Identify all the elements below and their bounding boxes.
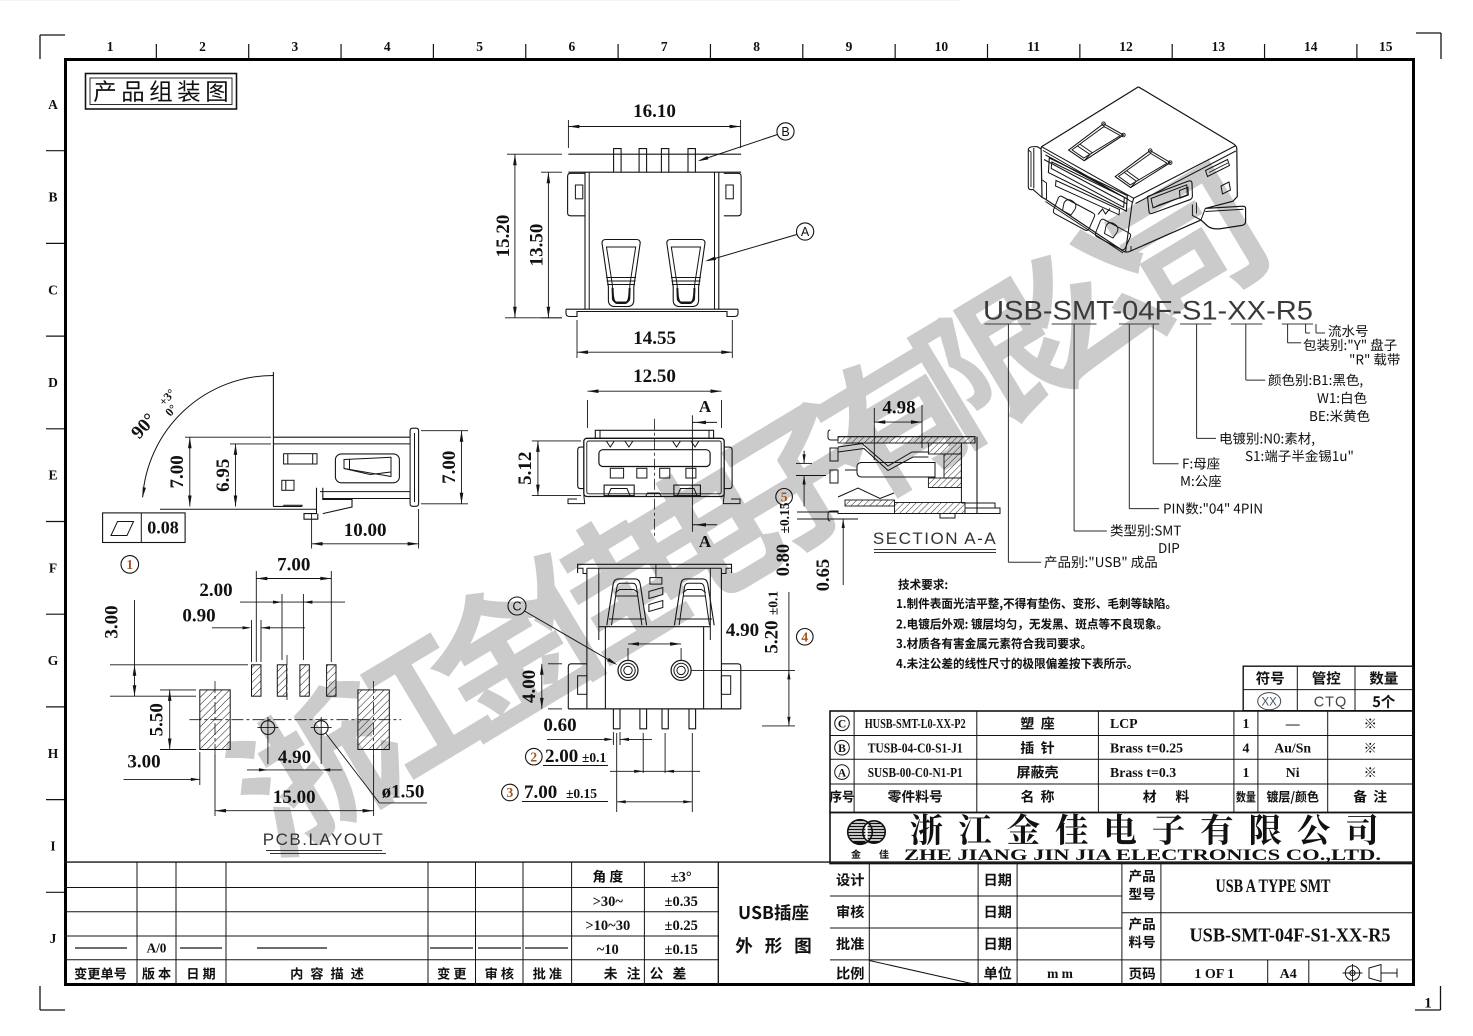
svg-text:4.90: 4.90 bbox=[726, 620, 759, 641]
svg-text:1 OF 1: 1 OF 1 bbox=[1194, 967, 1234, 982]
tree leader 类型别 bbox=[1073, 324, 1075, 531]
svg-text:±0.15: ±0.15 bbox=[566, 786, 597, 801]
svg-text:PCB.LAYOUT: PCB.LAYOUT bbox=[263, 830, 384, 849]
svg-text:±0.15: ±0.15 bbox=[665, 942, 698, 958]
svg-text:Brass t=0.3: Brass t=0.3 bbox=[1110, 765, 1176, 780]
svg-text:6: 6 bbox=[569, 39, 576, 54]
BOM row B bbox=[835, 740, 850, 755]
technical requirements text bbox=[898, 579, 909, 590]
svg-text:USB-SMT-04F-S1-XX-R5: USB-SMT-04F-S1-XX-R5 bbox=[983, 296, 1313, 326]
back view dim 5.20±0.1 circled 4 bbox=[691, 669, 795, 671]
svg-text:G: G bbox=[48, 653, 59, 668]
pcb dim 5.50 bbox=[160, 689, 196, 691]
svg-text:0.65: 0.65 bbox=[814, 559, 834, 591]
pcb dim 3.00 bottom bbox=[199, 752, 201, 785]
drawing name cell bbox=[717, 862, 719, 985]
front view base plate bbox=[566, 149, 741, 317]
svg-text:C: C bbox=[512, 600, 521, 614]
svg-text:A: A bbox=[838, 767, 847, 779]
svg-text:D: D bbox=[48, 375, 58, 390]
svg-text:2: 2 bbox=[530, 749, 537, 764]
svg-text:C: C bbox=[48, 282, 58, 297]
svg-text:1: 1 bbox=[1242, 765, 1249, 780]
back view SMT legs bbox=[568, 564, 741, 729]
svg-text:14.55: 14.55 bbox=[633, 328, 676, 349]
svg-text:±0.35: ±0.35 bbox=[665, 894, 698, 910]
projection symbol bbox=[1345, 966, 1359, 980]
tree leader 包装别 bbox=[1287, 324, 1289, 343]
svg-text:CTQ: CTQ bbox=[1314, 695, 1348, 711]
svg-text:±0.1: ±0.1 bbox=[766, 591, 781, 616]
svg-text:13: 13 bbox=[1212, 39, 1226, 54]
svg-text:7.00: 7.00 bbox=[277, 555, 310, 576]
mating view dim 12.50 bbox=[587, 400, 589, 428]
svg-text:B: B bbox=[48, 190, 57, 205]
flatness tolerance box 0.08 bbox=[103, 513, 186, 543]
back view dim 4.00 bbox=[548, 663, 562, 665]
svg-text:A: A bbox=[699, 532, 712, 551]
svg-text:3.00: 3.00 bbox=[127, 752, 160, 773]
leader circle B bbox=[777, 123, 794, 140]
svg-text:USB A TYPE SMT: USB A TYPE SMT bbox=[1216, 877, 1332, 897]
svg-text:14: 14 bbox=[1304, 39, 1318, 54]
svg-text:±0.15: ±0.15 bbox=[777, 502, 792, 533]
svg-text:ZHE JIANG JIN JIA ELECTRONICS: ZHE JIANG JIN JIA ELECTRONICS CO.,LTD. bbox=[904, 845, 1381, 864]
part number segment underlines bbox=[985, 323, 1031, 325]
side view bottom and SMT foot bbox=[160, 372, 419, 519]
mating view dim 5.12 bbox=[532, 440, 581, 442]
BOM header row bbox=[830, 790, 842, 803]
svg-text:A: A bbox=[801, 225, 810, 239]
svg-text:15.20: 15.20 bbox=[493, 215, 514, 258]
scale cell diagonal bbox=[869, 961, 978, 986]
side view dim 7.00 left bbox=[189, 437, 191, 506]
svg-text:>10~30: >10~30 bbox=[585, 918, 630, 934]
svg-text:A4: A4 bbox=[1280, 967, 1297, 982]
corner trim marks bbox=[40, 34, 65, 36]
svg-text:4.90: 4.90 bbox=[278, 747, 311, 768]
back view dim 4.90 bbox=[628, 643, 681, 645]
svg-text:SECTION A-A: SECTION A-A bbox=[873, 529, 997, 548]
svg-text:m m: m m bbox=[1047, 966, 1074, 981]
svg-text:B: B bbox=[781, 125, 789, 139]
dim 0.65 bbox=[797, 511, 838, 513]
svg-text:7: 7 bbox=[661, 39, 668, 54]
svg-text:5.12: 5.12 bbox=[515, 452, 536, 485]
section A-A dim 4.98 bbox=[873, 408, 875, 460]
company name 浙江金佳电子有限公司 bbox=[911, 813, 1377, 845]
pcb layout holes bbox=[189, 655, 401, 758]
pcb dim 0.90 bbox=[251, 620, 253, 662]
svg-text:A/0: A/0 bbox=[147, 941, 167, 956]
svg-text:I: I bbox=[50, 838, 55, 853]
svg-text:1: 1 bbox=[107, 39, 114, 54]
svg-text:7.00: 7.00 bbox=[439, 451, 460, 484]
tree leader 流水号 bbox=[1305, 324, 1307, 333]
title block grid bbox=[830, 862, 1413, 864]
pcb dim diameter 1.50 bbox=[326, 734, 379, 803]
svg-text:15: 15 bbox=[1379, 39, 1393, 54]
svg-text:HUSB-SMT-L0-XX-P2: HUSB-SMT-L0-XX-P2 bbox=[865, 716, 966, 731]
side view dim 6.95 bbox=[235, 444, 237, 507]
svg-text:3: 3 bbox=[292, 39, 299, 54]
svg-text:±3°: ±3° bbox=[671, 870, 692, 886]
svg-text:Brass t=0.25: Brass t=0.25 bbox=[1110, 740, 1183, 755]
svg-text:5.20: 5.20 bbox=[762, 620, 783, 653]
svg-text:2.00: 2.00 bbox=[199, 580, 232, 601]
svg-text:4.98: 4.98 bbox=[882, 398, 915, 419]
svg-text:2: 2 bbox=[199, 39, 206, 54]
BOM row C bbox=[835, 716, 850, 731]
company logo bbox=[846, 818, 888, 846]
tree leader 颜色别 bbox=[1245, 324, 1247, 380]
front view dim 14.55 bbox=[576, 320, 578, 358]
svg-text:3.00: 3.00 bbox=[102, 605, 123, 638]
svg-text:A: A bbox=[699, 397, 712, 416]
svg-text:11: 11 bbox=[1027, 39, 1040, 54]
svg-text:1: 1 bbox=[1242, 716, 1249, 731]
pcb dim 2.00 bbox=[281, 594, 283, 660]
pcb dim 7.00 bbox=[255, 571, 257, 662]
pcb dim 4.90 bbox=[267, 737, 269, 764]
dim 0.80±0.15 circled 5 bbox=[803, 451, 805, 464]
left row ticks and letters bbox=[46, 150, 64, 152]
section line A-A bbox=[691, 415, 693, 532]
svg-text:>30~: >30~ bbox=[593, 894, 624, 910]
pcb dim 15.00 bbox=[214, 755, 216, 816]
assembly-drawing title box bbox=[86, 74, 237, 110]
svg-text:XX: XX bbox=[1262, 696, 1278, 708]
revision row A/0 bbox=[75, 947, 127, 949]
svg-text:7.00: 7.00 bbox=[167, 455, 188, 488]
tolerance table bbox=[64, 861, 1413, 863]
svg-text:13.50: 13.50 bbox=[527, 224, 548, 267]
mating view feet bbox=[568, 430, 740, 503]
front view dim 13.50 bbox=[541, 171, 562, 173]
svg-text:0.80: 0.80 bbox=[774, 544, 794, 576]
svg-text:3: 3 bbox=[507, 785, 514, 800]
svg-text:1: 1 bbox=[1424, 996, 1432, 1012]
watermark 浙江金佳电子有限公司 diagonal bbox=[213, 160, 1276, 868]
tree leader 产品别 bbox=[1007, 324, 1009, 562]
svg-text:TUSB-04-C0-S1-J1: TUSB-04-C0-S1-J1 bbox=[868, 740, 963, 755]
title block labels bbox=[836, 873, 849, 886]
svg-text:ø1.50: ø1.50 bbox=[382, 782, 425, 803]
revision table labels bbox=[75, 967, 87, 980]
svg-text:±0.1: ±0.1 bbox=[582, 750, 607, 765]
svg-text:SUSB-00-C0-N1-P1: SUSB-00-C0-N1-P1 bbox=[868, 765, 963, 780]
svg-text:0.90: 0.90 bbox=[182, 606, 215, 627]
CTQ symbol table bbox=[1243, 666, 1413, 711]
svg-text:USB-SMT-04F-S1-XX-R5: USB-SMT-04F-S1-XX-R5 bbox=[1190, 925, 1391, 947]
svg-text:4: 4 bbox=[1242, 740, 1249, 755]
svg-text:F: F bbox=[49, 560, 57, 575]
svg-text:±0.25: ±0.25 bbox=[665, 918, 698, 934]
svg-text:7.00: 7.00 bbox=[524, 782, 557, 803]
title block company band bbox=[830, 813, 1413, 864]
tree leader F/M bbox=[1152, 324, 1154, 464]
svg-text:~10: ~10 bbox=[597, 942, 619, 958]
pcb dim 3.00 vertical bbox=[110, 664, 248, 666]
svg-text:15.00: 15.00 bbox=[273, 787, 316, 808]
svg-text:0.60: 0.60 bbox=[543, 715, 576, 736]
section A-A foot bbox=[828, 430, 1000, 521]
svg-text:2.00: 2.00 bbox=[545, 746, 578, 767]
back view dim 0.60 bbox=[612, 732, 614, 745]
BOM table grid bbox=[830, 711, 1413, 813]
svg-text:1: 1 bbox=[126, 557, 133, 572]
side view bend angle arc 90deg bbox=[143, 375, 274, 497]
tree leader 电镀别 bbox=[1196, 324, 1198, 438]
svg-text:10: 10 bbox=[935, 39, 949, 54]
top column ticks and numbers bbox=[155, 44, 157, 58]
front view dim 16.10 bbox=[567, 120, 569, 148]
svg-text:0.08: 0.08 bbox=[147, 518, 179, 538]
svg-text:5.50: 5.50 bbox=[147, 703, 168, 736]
back view dim 2.00±0.1 circled 2 bbox=[526, 748, 543, 765]
svg-text:10.00: 10.00 bbox=[344, 520, 387, 541]
svg-text:4: 4 bbox=[801, 629, 808, 644]
svg-text:A: A bbox=[48, 97, 58, 112]
BOM row A bbox=[835, 765, 850, 780]
svg-text:12: 12 bbox=[1119, 39, 1133, 54]
svg-text:16.10: 16.10 bbox=[633, 101, 676, 122]
leader circle C bbox=[508, 597, 526, 615]
svg-text:—: — bbox=[1285, 716, 1300, 731]
svg-text:5: 5 bbox=[476, 39, 483, 54]
side view dim 7.00 right bbox=[421, 430, 468, 432]
mating view centerline bbox=[653, 419, 655, 537]
svg-text:6.95: 6.95 bbox=[213, 459, 234, 492]
circled 1 bbox=[121, 556, 139, 574]
svg-text:C: C bbox=[838, 719, 846, 731]
svg-text:9: 9 bbox=[846, 39, 853, 54]
CTQ XX circle bbox=[1258, 693, 1281, 710]
leader circle A bbox=[797, 223, 814, 240]
svg-text:Au/Sn: Au/Sn bbox=[1274, 740, 1311, 755]
svg-text:E: E bbox=[48, 468, 57, 483]
svg-text:B: B bbox=[838, 743, 846, 755]
side view dim 10.00 bbox=[311, 514, 313, 549]
svg-text:4: 4 bbox=[384, 39, 391, 54]
front view dim 15.20 bbox=[507, 153, 562, 155]
svg-text:4.00: 4.00 bbox=[519, 670, 540, 703]
svg-text:12.50: 12.50 bbox=[633, 366, 676, 387]
back view dim 7.00±0.15 circled 3 bbox=[502, 784, 519, 801]
tree leader PIN数 bbox=[1128, 324, 1130, 509]
svg-text:5: 5 bbox=[781, 489, 788, 504]
svg-text:Ni: Ni bbox=[1286, 765, 1300, 780]
svg-text:LCP: LCP bbox=[1110, 716, 1138, 731]
svg-text:H: H bbox=[48, 746, 59, 761]
isometric bottom edge folds bbox=[1028, 87, 1245, 253]
svg-text:J: J bbox=[50, 931, 57, 946]
svg-text:8: 8 bbox=[753, 39, 760, 54]
